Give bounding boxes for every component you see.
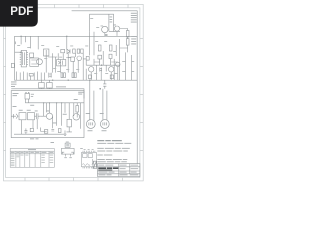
- far right wires: [120, 39, 132, 80]
- transistor Q12: [116, 62, 120, 66]
- zone tick right: [140, 38, 143, 150]
- capacitor C1: [35, 113, 41, 119]
- standing resistors bottom mid: [49, 73, 52, 78]
- bottom parts right: [89, 75, 92, 79]
- label above lower block right: [78, 92, 83, 95]
- logo box: [93, 161, 97, 168]
- left labels at bus: [11, 82, 17, 87]
- wire and part bottom right: [41, 128, 47, 132]
- tab: [65, 143, 70, 147]
- vertical wires: [44, 103, 69, 126]
- pinout label: [80, 148, 93, 150]
- small rects above rail: [86, 57, 89, 61]
- table outline: [10, 149, 54, 168]
- small parts row y49-53: [61, 49, 65, 52]
- extra verticals lower block: [22, 103, 81, 134]
- inner squares: [83, 154, 87, 158]
- upper schematic box: [15, 36, 138, 80]
- fuse/switch cluster: [25, 94, 30, 100]
- transistor Q8: [114, 26, 119, 31]
- verticals right column: [86, 59, 118, 80]
- wire run: [41, 115, 47, 117]
- table body text: [11, 155, 53, 166]
- top pins: [83, 151, 95, 153]
- block top wires: [26, 99, 29, 103]
- output rail: [86, 64, 120, 66]
- extra horizontal stubs: [45, 48, 128, 62]
- transistor Q3: [77, 56, 82, 61]
- connector P2: [100, 120, 109, 129]
- wire Q8 leg: [117, 29, 128, 36]
- verticals mid column: [53, 53, 83, 80]
- bottom wire: [14, 133, 66, 135]
- resistor R2: [28, 113, 35, 120]
- ground symbol: [64, 131, 67, 136]
- mid rail: [25, 102, 84, 104]
- rail mid-left: [48, 56, 71, 59]
- tab hole: [66, 144, 69, 147]
- resistor R10: [29, 74, 33, 77]
- resistor R20: [98, 45, 101, 51]
- bus stub dark: [56, 86, 66, 88]
- output sub-box top: [90, 14, 114, 32]
- bottom pins: [83, 167, 95, 169]
- connector P1: [86, 120, 95, 129]
- table title: [28, 148, 36, 151]
- transistor Q7: [102, 26, 108, 32]
- electrolytic C2: [67, 119, 71, 127]
- output device wire: [109, 14, 120, 31]
- sheet outer border: [4, 4, 144, 181]
- table header text: [11, 151, 54, 154]
- transistor Q13: [73, 114, 80, 121]
- sheet inner border: [6, 8, 140, 178]
- tiny ref labels scattered (smudge): [17, 18, 134, 74]
- outline: [82, 152, 97, 166]
- body: [61, 148, 74, 154]
- resistor R24: [126, 31, 129, 38]
- zone tick bottom: [25, 178, 123, 181]
- diode pair mid: [100, 68, 102, 72]
- company name bold: [98, 167, 118, 170]
- lower block labels: [13, 93, 78, 123]
- IC U1: [21, 50, 26, 67]
- component C5: [44, 49, 49, 56]
- transistor Q11: [109, 67, 114, 72]
- resistor R4: [76, 106, 79, 113]
- left edge label: [14, 42, 16, 45]
- title block frame: [98, 164, 140, 177]
- block caption dashes: [30, 137, 39, 140]
- extra verticals filling band: [46, 45, 116, 80]
- inner squiggle: [82, 164, 90, 166]
- sub-box verticals: [90, 32, 94, 56]
- input wire: [15, 52, 23, 53]
- zone tick left: [4, 38, 6, 150]
- capacitor C3 bottom: [24, 128, 27, 134]
- svg-text:PDF: PDF: [10, 6, 33, 18]
- parts row right: [73, 49, 76, 53]
- diode D2: [67, 49, 70, 53]
- legs: [66, 154, 71, 156]
- schematic area boundary: [72, 11, 138, 164]
- zone tick top: [31, 4, 129, 7]
- transistor Q9: [46, 113, 52, 119]
- feet: [62, 152, 73, 154]
- diode pair on bus: [39, 83, 45, 89]
- relay K1: [30, 58, 39, 66]
- component block: [30, 53, 34, 58]
- wire bus mid: [11, 89, 84, 99]
- lower-left block box: [11, 91, 84, 138]
- transistor Q10: [89, 67, 94, 72]
- input jack J1: [11, 114, 18, 119]
- resistor R21: [109, 45, 112, 51]
- transistor Q1: [37, 59, 43, 65]
- resistor R14: [71, 57, 75, 61]
- PDF badge: [0, 0, 38, 27]
- wire comb left bottom: [17, 72, 45, 81]
- transistor list text top-right: [131, 13, 137, 45]
- small parts bottom band: [30, 128, 33, 131]
- wire drops from top edge: [21, 36, 67, 50]
- resistor R1: [19, 113, 26, 120]
- rail junction dots: [25, 92, 62, 103]
- junction dots: [20, 36, 102, 90]
- junction wires to motors: [90, 80, 107, 120]
- edge connector: [11, 64, 14, 68]
- cap pair right: [103, 81, 106, 89]
- opto box: [57, 60, 66, 66]
